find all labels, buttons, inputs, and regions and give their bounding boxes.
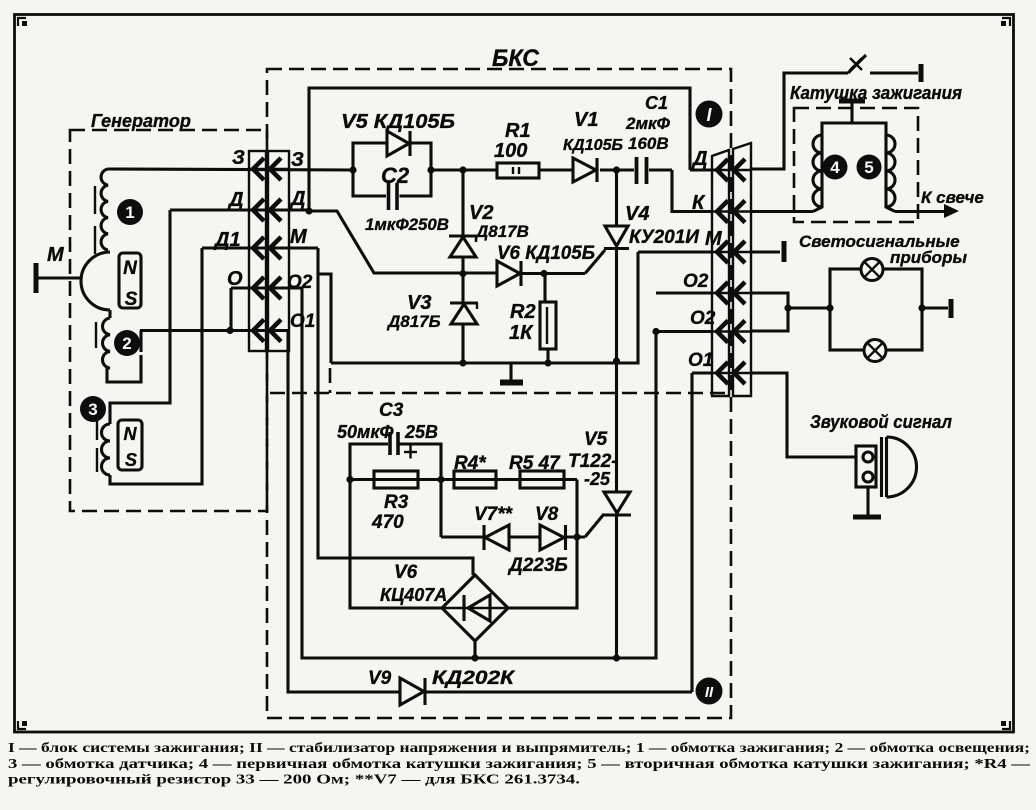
svg-text:1мкФ250В: 1мкФ250В <box>365 215 449 234</box>
svg-text:2: 2 <box>122 334 131 353</box>
svg-text:N: N <box>123 258 138 279</box>
svg-text:КУ201И: КУ201И <box>629 227 699 248</box>
svg-text:С2: С2 <box>381 163 410 188</box>
svg-text:Д817В: Д817В <box>474 222 529 241</box>
svg-text:N: N <box>124 424 138 444</box>
svg-text:регулировочный резистор 33 — 2: регулировочный резистор 33 — 200 Ом; **V… <box>8 772 580 787</box>
svg-text:О2: О2 <box>287 272 313 293</box>
svg-text:Звуковой сигнал: Звуковой сигнал <box>810 412 952 432</box>
svg-text:М: М <box>290 226 308 248</box>
svg-text:Д: Д <box>289 188 305 210</box>
svg-text:Генератор: Генератор <box>91 111 191 131</box>
svg-text:З: З <box>291 149 304 171</box>
svg-text:2мкФ: 2мкФ <box>625 114 671 133</box>
svg-text:Д223Б: Д223Б <box>507 555 568 576</box>
svg-text:I — блок системы зажигания; II: I — блок системы зажигания; II — стабили… <box>8 740 1030 755</box>
svg-text:О1: О1 <box>290 311 315 332</box>
svg-text:Д: Д <box>691 148 707 170</box>
svg-text:100: 100 <box>494 140 527 162</box>
svg-text:25В: 25В <box>404 422 438 442</box>
svg-text:V4: V4 <box>625 203 649 225</box>
svg-text:О2: О2 <box>683 271 709 292</box>
svg-text:3: 3 <box>88 400 97 419</box>
svg-text:К свече: К свече <box>921 188 984 207</box>
svg-text:50мкФ: 50мкФ <box>337 422 394 442</box>
svg-text:Д: Д <box>227 189 243 211</box>
svg-text:О1: О1 <box>688 350 713 371</box>
svg-text:V2: V2 <box>469 202 493 224</box>
svg-text:S: S <box>125 289 138 310</box>
svg-text:V1: V1 <box>574 109 598 131</box>
svg-text:3 — обмотка датчика; 4 — перви: 3 — обмотка датчика; 4 — первичная обмот… <box>8 756 1031 771</box>
svg-text:S: S <box>125 450 137 470</box>
svg-text:V5: V5 <box>584 429 608 450</box>
svg-text:V8: V8 <box>535 504 559 525</box>
svg-text:160В: 160В <box>628 134 669 153</box>
svg-text:Катушка зажигания: Катушка зажигания <box>790 83 962 103</box>
svg-text:R3: R3 <box>384 492 409 513</box>
svg-text:З: З <box>232 147 245 169</box>
svg-text:V7**: V7** <box>474 504 514 525</box>
svg-text:М: М <box>47 244 65 266</box>
svg-text:II: II <box>705 684 714 701</box>
svg-text:К: К <box>692 192 706 214</box>
svg-text:V5 КД105Б: V5 КД105Б <box>341 111 455 133</box>
svg-text:R1: R1 <box>505 120 531 142</box>
svg-text:КД105Б: КД105Б <box>563 137 623 154</box>
svg-text:1К: 1К <box>509 322 534 344</box>
svg-text:R4*: R4* <box>454 453 487 474</box>
svg-text:С3: С3 <box>379 400 404 421</box>
svg-text:Д1: Д1 <box>213 229 241 251</box>
svg-text:С1: С1 <box>645 93 668 113</box>
svg-text:1: 1 <box>125 203 134 222</box>
svg-text:V6: V6 <box>394 562 418 583</box>
svg-text:приборы: приборы <box>890 248 967 267</box>
svg-text:470: 470 <box>371 512 404 533</box>
svg-text:КЦ407А: КЦ407А <box>380 585 447 605</box>
svg-text:V3: V3 <box>407 292 431 314</box>
svg-text:КД202К: КД202К <box>432 668 516 689</box>
svg-text:4: 4 <box>830 158 840 177</box>
svg-text:О: О <box>227 268 243 290</box>
svg-text:-25: -25 <box>584 469 611 489</box>
svg-text:Д817Б: Д817Б <box>386 312 441 331</box>
svg-text:М: М <box>705 228 723 250</box>
svg-text:R5 47: R5 47 <box>509 453 561 474</box>
svg-text:R2: R2 <box>510 301 536 323</box>
svg-text:V6 КД105Б: V6 КД105Б <box>497 243 595 264</box>
svg-text:О2: О2 <box>690 308 716 329</box>
svg-text:БКС: БКС <box>492 45 540 72</box>
svg-text:5: 5 <box>864 158 873 177</box>
svg-text:V9: V9 <box>368 668 392 689</box>
